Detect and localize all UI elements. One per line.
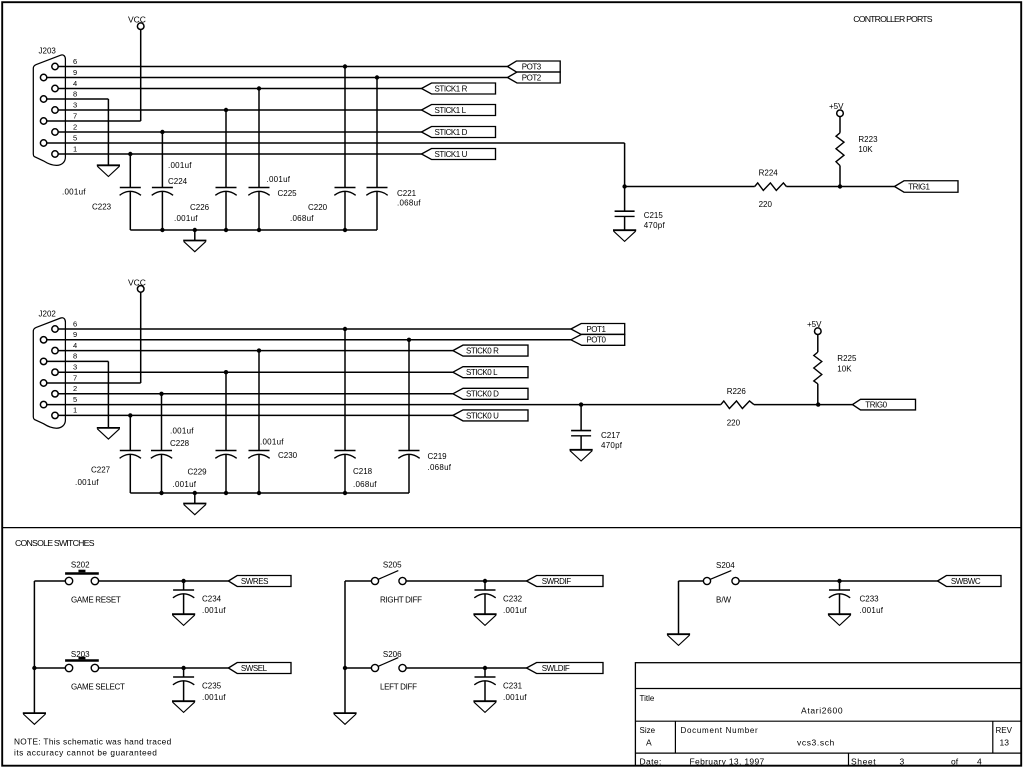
ground (section 2 capacitor rail) xyxy=(183,504,206,515)
power +5V (section 1) xyxy=(829,102,844,117)
svg-text:8: 8 xyxy=(73,352,77,361)
capacitor C230 xyxy=(248,351,269,493)
capacitor C225 xyxy=(248,89,269,231)
wire pin 2 J203 to STICK1 D xyxy=(58,131,422,133)
svg-text:.001uf: .001uf xyxy=(170,427,194,436)
wire pin 1 J202 to STICK0 U xyxy=(58,414,453,416)
capacitor C215 470pf xyxy=(615,187,635,231)
svg-text:3: 3 xyxy=(73,100,77,109)
svg-text:SWRDIF: SWRDIF xyxy=(542,577,571,586)
svg-text:8: 8 xyxy=(73,89,77,98)
svg-text:C234: C234 xyxy=(202,595,222,604)
ground (middle rail) xyxy=(333,713,356,724)
wire left rail to S202 xyxy=(34,580,65,582)
svg-text:VCC: VCC xyxy=(128,15,146,25)
switch S206 LEFT DIFF xyxy=(371,658,406,672)
svg-text:S202: S202 xyxy=(71,561,90,570)
wire VCC to pin 7 of J202 xyxy=(47,292,141,383)
svg-text:Title: Title xyxy=(640,694,655,703)
svg-text:.068uf: .068uf xyxy=(290,214,314,223)
svg-text:STICK1 U: STICK1 U xyxy=(435,150,468,159)
svg-text:C223: C223 xyxy=(92,203,112,212)
svg-text:.001uf: .001uf xyxy=(75,478,99,487)
capacitor C221 xyxy=(366,78,387,231)
node junction pin1/C223 xyxy=(128,152,132,156)
capacitor C235 xyxy=(173,668,194,701)
svg-text:STICK0 L: STICK0 L xyxy=(466,368,498,377)
J202 pin numbers xyxy=(73,319,77,414)
svg-text:.068uf: .068uf xyxy=(397,199,421,208)
wire S204 left to ground drop xyxy=(679,580,704,582)
section divider line xyxy=(2,527,1021,529)
capacitor C232 xyxy=(474,581,495,614)
node junction pin2/C224 xyxy=(160,130,164,134)
svg-text:C221: C221 xyxy=(397,189,417,198)
wire left vertical rail (S202/S203) xyxy=(33,581,35,713)
svg-text:4: 4 xyxy=(977,757,982,767)
svg-text:R226: R226 xyxy=(727,387,747,396)
flag SWRDIF xyxy=(527,576,604,587)
title block frame xyxy=(635,663,1021,766)
svg-text:SWRES: SWRES xyxy=(241,577,268,586)
capacitor C223 xyxy=(120,154,141,230)
svg-text:STICK1 D: STICK1 D xyxy=(435,128,468,137)
node junction C217/TRIG0 xyxy=(579,402,583,406)
svg-text:A: A xyxy=(646,738,652,748)
svg-text:C215: C215 xyxy=(644,211,664,220)
svg-text:C231: C231 xyxy=(503,682,523,691)
svg-text:LEFT DIFF: LEFT DIFF xyxy=(380,683,417,692)
capacitor C228 xyxy=(151,394,172,493)
switch S204 B/W xyxy=(703,571,739,585)
ground (C232) xyxy=(473,614,496,625)
svg-text:7: 7 xyxy=(73,373,77,382)
node junction S202/C234 xyxy=(181,579,185,583)
flag STICK0 U xyxy=(453,410,528,421)
wire pin 5 J202 to TRIG0 net xyxy=(47,404,853,406)
switch S203 GAME SELECT xyxy=(65,657,99,672)
node junction S203/C235 xyxy=(181,666,185,670)
ground (C234) xyxy=(172,614,195,625)
svg-text:VCC: VCC xyxy=(128,277,146,287)
svg-text:C225: C225 xyxy=(278,189,298,198)
svg-text:CONSOLE SWITCHES: CONSOLE SWITCHES xyxy=(15,538,95,548)
flag SWRES xyxy=(228,576,291,587)
svg-text:.001uf: .001uf xyxy=(202,693,226,702)
switch S205 RIGHT DIFF xyxy=(371,571,406,585)
ground (C235) xyxy=(172,701,195,712)
ground (S204) xyxy=(667,634,690,645)
svg-text:.001uf: .001uf xyxy=(173,480,197,489)
ground (C231) xyxy=(473,701,496,712)
svg-text:.001uf: .001uf xyxy=(202,606,226,615)
flag SWLDIF xyxy=(527,663,604,674)
power +5V (section 2) xyxy=(807,320,822,334)
node junction pin4/C225 xyxy=(257,86,261,90)
svg-text:POT3: POT3 xyxy=(522,62,542,71)
connector J202 xyxy=(33,318,65,428)
capacitor C218 xyxy=(334,329,355,493)
node junction pin9/C221 xyxy=(375,75,379,79)
node junction pin4/C230 xyxy=(257,348,261,352)
svg-text:13: 13 xyxy=(1000,738,1010,748)
wire pin 9 J203 to POT2 xyxy=(47,77,508,79)
svg-text:STICK1 R: STICK1 R xyxy=(435,84,468,93)
svg-text:2: 2 xyxy=(73,122,77,131)
flag POT3 xyxy=(508,61,561,72)
node junction pin3/C229 xyxy=(224,370,228,374)
wire +5V to R225 xyxy=(817,334,819,352)
wire middle rail to S205 xyxy=(345,580,372,582)
svg-text:.001uf: .001uf xyxy=(267,175,291,184)
resistor R225 10K xyxy=(814,352,822,384)
flag STICK1 D xyxy=(422,127,496,138)
flag STICK1 L xyxy=(422,105,496,116)
node junction middle rail/S206 xyxy=(343,666,347,670)
capacitor C233 xyxy=(829,581,850,614)
svg-text:J202: J202 xyxy=(39,309,57,318)
svg-text:R223: R223 xyxy=(858,135,878,144)
wire ground rail (section 1 capacitors) xyxy=(130,229,377,231)
svg-text:TRIG1: TRIG1 xyxy=(908,182,930,191)
svg-text:4: 4 xyxy=(73,341,77,350)
note text xyxy=(14,736,172,757)
svg-text:POT2: POT2 xyxy=(522,73,542,82)
wire middle vertical rail (S205/S206) xyxy=(344,581,346,713)
capacitor C234 xyxy=(173,581,194,614)
svg-text:S203: S203 xyxy=(71,650,90,659)
svg-text:S205: S205 xyxy=(383,561,402,570)
svg-text:C230: C230 xyxy=(278,451,298,460)
svg-text:4: 4 xyxy=(73,79,77,88)
svg-text:.001uf: .001uf xyxy=(260,438,284,447)
svg-text:220: 220 xyxy=(759,200,773,209)
svg-text:R224: R224 xyxy=(759,168,779,177)
node junction pin1/C227 xyxy=(128,413,132,417)
svg-text:vcs3.sch: vcs3.sch xyxy=(797,738,835,748)
resistor R224 220 xyxy=(755,183,787,191)
wire pin 4 J202 to STICK0 R xyxy=(58,350,453,352)
wire pin 4 J203 to STICK1 R xyxy=(58,88,422,90)
svg-text:C235: C235 xyxy=(202,682,222,691)
wire left rail to S203 xyxy=(34,667,65,669)
flag SWSEL xyxy=(228,663,291,674)
wire pin 6 J203 to POT3 xyxy=(58,66,508,68)
flag STICK1 R xyxy=(422,83,496,94)
wire pin 3 J202 to STICK0 L xyxy=(58,371,453,373)
capacitor C220 xyxy=(334,67,355,231)
node junction C215/TRIG1 xyxy=(622,184,626,188)
wire R225 to TRIG0 node xyxy=(817,384,819,405)
svg-text:SWLDIF: SWLDIF xyxy=(542,664,570,673)
switch S202 GAME RESET xyxy=(65,570,99,585)
wire S202 to SWRES xyxy=(99,580,229,582)
svg-text:.068uf: .068uf xyxy=(428,463,452,472)
flag STICK0 L xyxy=(453,367,528,378)
rail junctions (section 1) xyxy=(160,228,347,232)
svg-text:C217: C217 xyxy=(601,431,621,440)
wire middle rail to S206 xyxy=(345,667,372,669)
svg-text:.001uf: .001uf xyxy=(168,161,192,170)
wire pin 8 J202 to ground xyxy=(47,361,108,428)
wire pin 9 J202 to POT0 xyxy=(47,339,571,341)
svg-text:9: 9 xyxy=(73,330,77,339)
capacitor C231 xyxy=(474,668,495,701)
wire rail to ground stem (section 2) xyxy=(194,493,196,504)
svg-text:Date:: Date: xyxy=(640,757,662,767)
svg-text:C232: C232 xyxy=(503,595,523,604)
node junction pin3/C226 xyxy=(224,108,228,112)
node junction S205/C232 xyxy=(483,579,487,583)
svg-text:R225: R225 xyxy=(837,354,857,363)
svg-text:5: 5 xyxy=(73,395,77,404)
svg-text:S206: S206 xyxy=(383,650,402,659)
svg-text:6: 6 xyxy=(73,319,77,328)
ground (J202 pin 8) xyxy=(97,428,120,439)
svg-text:2: 2 xyxy=(73,384,77,393)
flag POT1 xyxy=(571,324,625,335)
wire S206 to SWLDIF xyxy=(406,667,527,669)
wire pin 6 J202 to POT1 xyxy=(58,328,571,330)
svg-text:C220: C220 xyxy=(308,203,328,212)
svg-text:Atari2600: Atari2600 xyxy=(801,705,843,715)
svg-text:Size: Size xyxy=(640,726,656,735)
ground (C215) xyxy=(613,230,636,241)
svg-text:5: 5 xyxy=(73,133,77,142)
capacitor C226 xyxy=(215,110,236,230)
svg-text:C224: C224 xyxy=(168,177,188,186)
svg-text:.068uf: .068uf xyxy=(353,480,377,489)
svg-text:POT0: POT0 xyxy=(586,336,606,345)
svg-text:.001uf: .001uf xyxy=(503,693,527,702)
svg-text:Sheet: Sheet xyxy=(851,757,876,767)
svg-text:STICK0 D: STICK0 D xyxy=(466,390,499,399)
svg-text:10K: 10K xyxy=(837,364,852,373)
node junction pin2/C228 xyxy=(159,392,163,396)
svg-text:+5V: +5V xyxy=(807,320,822,329)
flag STICK1 U xyxy=(422,149,496,160)
resistor R226 220 xyxy=(721,401,754,409)
power VCC (section 2) xyxy=(128,277,146,292)
svg-text:220: 220 xyxy=(727,419,741,428)
capacitor C217 470pf xyxy=(571,405,591,450)
capacitor C229 xyxy=(215,372,236,493)
svg-text:SWBWC: SWBWC xyxy=(951,577,981,586)
svg-text:C218: C218 xyxy=(353,467,373,476)
ground (left rail) xyxy=(23,713,46,724)
ground (C233) xyxy=(828,614,851,625)
svg-text:C227: C227 xyxy=(91,466,111,475)
flag TRIG1 xyxy=(895,181,959,193)
svg-text:.001uf: .001uf xyxy=(860,606,884,615)
wire S204 to SWBWC xyxy=(739,580,937,582)
svg-text:of: of xyxy=(951,757,959,767)
J203 pin numbers xyxy=(73,57,77,154)
svg-text:6: 6 xyxy=(73,57,77,66)
svg-text:its accuracy cannot be guarant: its accuracy cannot be guaranteed xyxy=(14,748,157,758)
node junction S204/C233 xyxy=(837,579,841,583)
svg-text:.001uf: .001uf xyxy=(174,214,198,223)
wire pin 5 J203 to TRIG1 node xyxy=(47,143,625,187)
svg-text:.001uf: .001uf xyxy=(503,606,527,615)
wire S203 to SWSEL xyxy=(99,667,229,669)
ground (J203 pin 8) xyxy=(97,165,120,176)
svg-text:C219: C219 xyxy=(428,452,448,461)
svg-text:10K: 10K xyxy=(858,145,873,154)
connector J203 xyxy=(33,55,65,165)
svg-text:February 13, 1997: February 13, 1997 xyxy=(690,757,765,767)
wire pin 1 J203 to STICK1 U xyxy=(58,153,422,155)
svg-text:CONTROLLER PORTS: CONTROLLER PORTS xyxy=(853,14,932,24)
svg-text:1: 1 xyxy=(73,406,77,415)
node junction pin6/C220 xyxy=(343,64,347,68)
flag POT2 xyxy=(508,72,561,83)
svg-text:3: 3 xyxy=(900,757,905,767)
svg-text:S204: S204 xyxy=(716,561,735,570)
wire pin 8 J203 to ground xyxy=(47,99,108,165)
resistor R223 10K xyxy=(836,133,844,166)
svg-text:Document Number: Document Number xyxy=(681,726,759,735)
svg-text:3: 3 xyxy=(73,363,77,372)
node junction left rail/S203 xyxy=(32,666,36,670)
svg-text:C233: C233 xyxy=(860,595,880,604)
svg-text:STICK0 U: STICK0 U xyxy=(466,411,499,420)
node junction S206/C231 xyxy=(483,666,487,670)
flag POT0 xyxy=(571,334,625,345)
svg-text:B/W: B/W xyxy=(716,595,732,604)
svg-text:NOTE: This schematic was hand: NOTE: This schematic was hand traced xyxy=(14,736,172,746)
svg-text:C226: C226 xyxy=(190,203,210,212)
wire R223 to TRIG1 node xyxy=(839,166,841,187)
svg-text:GAME SELECT: GAME SELECT xyxy=(71,683,125,692)
svg-text:TRIG0: TRIG0 xyxy=(865,401,887,410)
rail junctions (section 2) xyxy=(159,491,347,495)
node junction pin6/C218 xyxy=(343,327,347,331)
svg-text:1: 1 xyxy=(73,144,77,153)
ground (C217) xyxy=(570,450,593,461)
node junction R225/TRIG0 xyxy=(816,402,820,406)
svg-text:SWSEL: SWSEL xyxy=(241,664,268,673)
svg-text:+5V: +5V xyxy=(829,102,844,111)
flag SWBWC xyxy=(938,576,1002,587)
ground (section 1 capacitor rail) xyxy=(183,241,206,252)
wire pin 2 J202 to STICK0 D xyxy=(58,393,453,395)
capacitor C224 xyxy=(152,132,173,230)
svg-text:REV: REV xyxy=(996,726,1013,735)
node junction R223/TRIG1 xyxy=(838,184,842,188)
wire S204 ground drop xyxy=(678,581,680,634)
flag STICK0 D xyxy=(453,388,528,399)
svg-text:470pf: 470pf xyxy=(644,221,666,230)
svg-text:POT1: POT1 xyxy=(586,325,606,334)
wire S205 to SWRDIF xyxy=(406,580,527,582)
capacitor C227 xyxy=(120,415,141,493)
capacitor C219 xyxy=(398,340,419,493)
svg-text:STICK0 R: STICK0 R xyxy=(466,347,499,356)
svg-text:470pf: 470pf xyxy=(601,441,623,450)
svg-text:RIGHT DIFF: RIGHT DIFF xyxy=(380,595,422,604)
wire TRIG1 net xyxy=(625,186,895,188)
svg-text:GAME RESET: GAME RESET xyxy=(71,595,121,604)
svg-text:C229: C229 xyxy=(188,468,208,477)
svg-text:C228: C228 xyxy=(170,439,190,448)
svg-text:STICK1 L: STICK1 L xyxy=(435,106,467,115)
wire ground rail (section 2 capacitors) xyxy=(130,492,409,494)
wire +5V to R223 xyxy=(839,116,841,132)
svg-text:.001uf: .001uf xyxy=(62,187,86,196)
power VCC (section 1) xyxy=(128,15,146,30)
wire VCC to pin 7 of J203 xyxy=(47,29,141,121)
flag STICK0 R xyxy=(453,345,528,356)
wire rail to ground stem (section 1) xyxy=(194,230,196,241)
svg-text:9: 9 xyxy=(73,68,77,77)
svg-text:7: 7 xyxy=(73,111,77,120)
node junction pin9/C219 xyxy=(407,338,411,342)
flag TRIG0 xyxy=(853,399,916,410)
wire pin 3 J203 to STICK1 L xyxy=(58,109,422,111)
svg-text:J203: J203 xyxy=(39,47,57,56)
